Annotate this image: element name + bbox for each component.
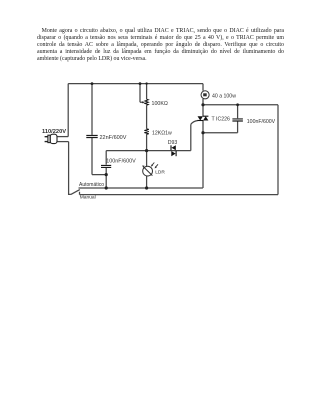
triac Q1 TIC226 left triangle [198, 116, 204, 120]
svg-text:100nF/600V: 100nF/600V [106, 159, 136, 165]
LDR circle [143, 166, 153, 176]
junction dot 22nF / 100nF return [105, 173, 108, 176]
plug P 110/220V cap [48, 135, 50, 142]
wire resistor branch [146, 84, 148, 151]
wire Manual net [80, 192, 279, 195]
junction dot top rail / resistor [145, 82, 147, 84]
junction dot node line / main vertical [201, 103, 204, 106]
triac Q1 MT1 bar [198, 120, 204, 122]
capacitor C1 22nF/600V plates [86, 135, 97, 137]
diac D1 upper triangle [172, 145, 176, 150]
plug P 110/220V prongs [45, 137, 48, 142]
capacitor C2 100nF/600V (left) plates [101, 165, 111, 167]
junction dot main vertical / cap return [201, 131, 204, 134]
junction dot top rail / wiper [139, 82, 142, 85]
wire Automatico net [79, 187, 203, 189]
junction dot Automatico / 100nF [105, 186, 108, 189]
svg-text:100KΩ: 100KΩ [152, 101, 168, 107]
junction dot top rail / 22nF [91, 82, 94, 85]
wire potentiometer wiper [140, 84, 143, 103]
wire top rail [68, 83, 203, 85]
wire 100nF-left branch [105, 151, 107, 188]
LDR slash arrowhead [142, 165, 144, 167]
wire triac gate curve [191, 121, 198, 125]
potentiometer P1 100K zigzag [145, 99, 148, 105]
potentiometer P1 wiper arrowhead [142, 101, 145, 103]
junction dot Automatico / LDR [145, 186, 148, 189]
plug P 110/220V body [50, 134, 57, 143]
junction dot node line / right cap [236, 103, 239, 106]
lamp B1 filament block [203, 93, 207, 96]
wire plug top lead [57, 136, 69, 138]
wire left rail [67, 84, 69, 137]
wire diac/gate net [106, 124, 191, 150]
wire main vertical (lamp-triac branch) [202, 84, 204, 188]
wire right-cap branch [203, 105, 238, 133]
svg-text:40 a 100w: 40 a 100w [212, 94, 236, 100]
junction dot resistor/diac/LDR node [145, 149, 148, 152]
svg-text:D93: D93 [168, 140, 178, 146]
wire LDR branch [146, 151, 148, 188]
lamp B1 40-100W circle [201, 91, 209, 99]
svg-text:Manual: Manual [80, 195, 96, 201]
svg-text:12KΩ1w: 12KΩ1w [152, 130, 172, 136]
svg-text:Automático: Automático [79, 182, 104, 188]
diac D1 lower triangle [171, 151, 175, 156]
resistor R1 12K/1W zigzag [144, 129, 148, 135]
triac Q1 MT2 bar [203, 115, 209, 117]
LDR light arrow 2 [156, 164, 159, 167]
switch lever (Automatico/Manual selector) [71, 190, 80, 195]
diac D1 upper bar [170, 145, 172, 150]
wire right rail [277, 105, 279, 195]
wire left lower drop [69, 142, 71, 195]
capacitor C3 100nF/600V (right) plates [232, 119, 243, 121]
wire 22nF branch [92, 84, 106, 175]
wire plug bottom lead [57, 141, 69, 143]
LDR light arrow 1 [152, 163, 155, 166]
triac Q1 TIC226 right triangle [203, 116, 208, 120]
svg-text:LDR: LDR [155, 170, 165, 176]
svg-text:100nF/600V: 100nF/600V [247, 119, 276, 125]
svg-text:T IC226: T IC226 [212, 117, 230, 123]
svg-text:110/220V: 110/220V [42, 129, 66, 135]
wire node line lamp/triac/cap [203, 104, 278, 106]
svg-text:22nF/600V: 22nF/600V [100, 135, 127, 141]
LDR diagonal slash [143, 166, 152, 175]
diac D1 lower bar [175, 151, 177, 156]
